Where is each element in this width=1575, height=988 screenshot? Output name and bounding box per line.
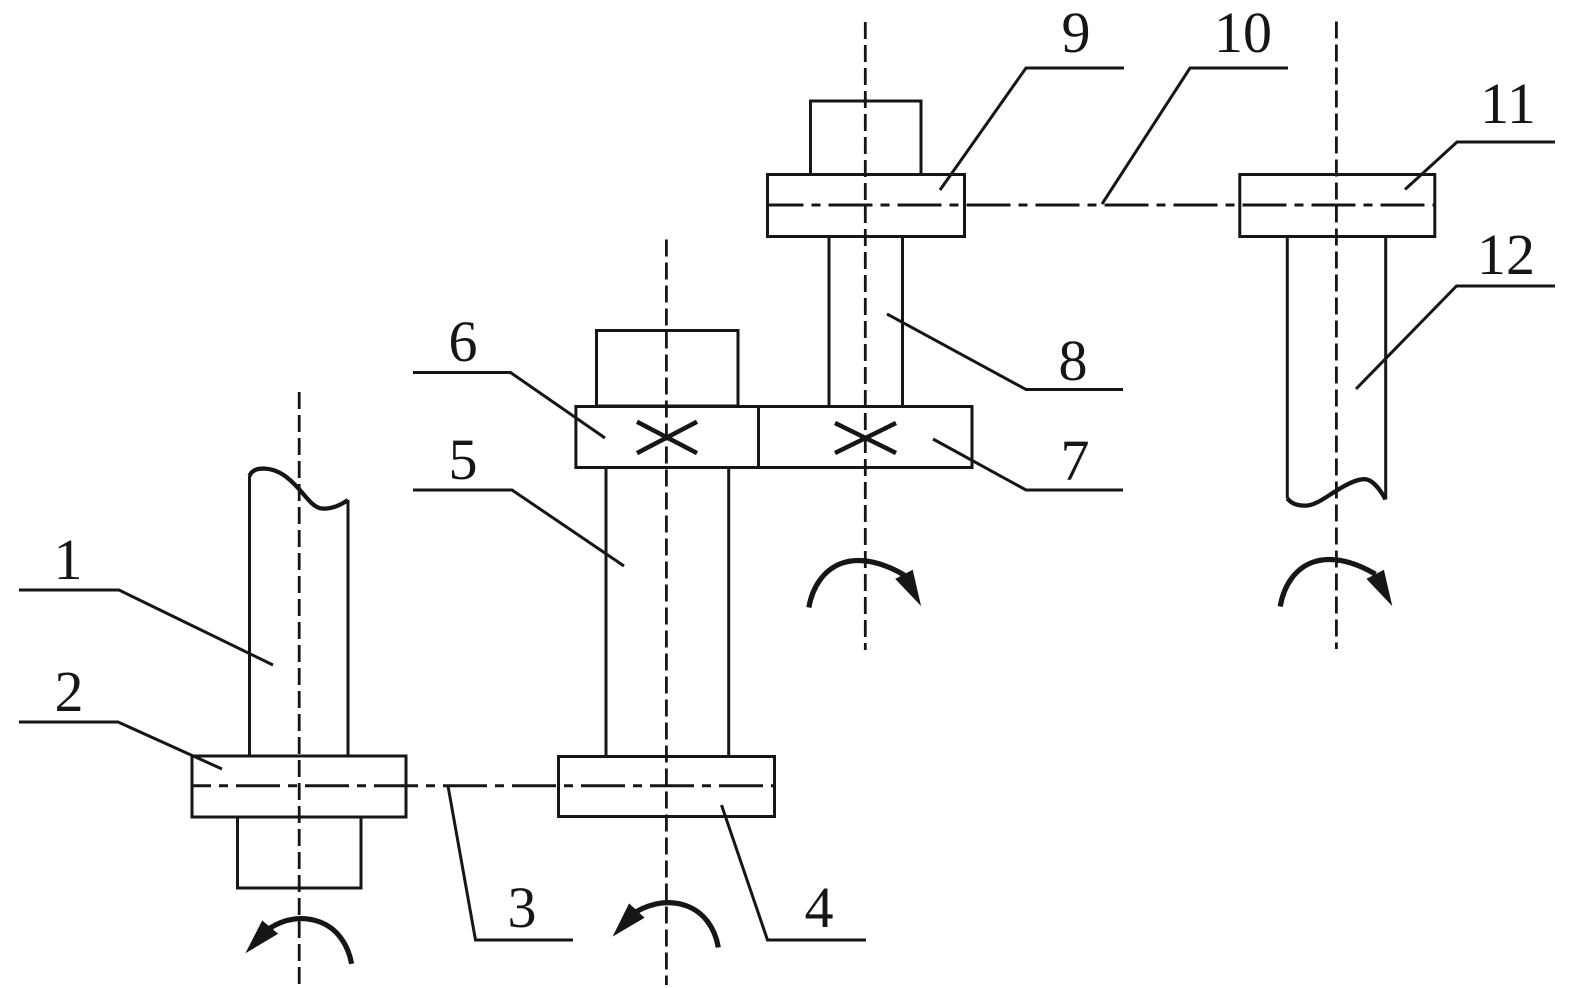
- bearing housing 7 (right box): [759, 407, 973, 468]
- svg-text:3: 3: [508, 875, 537, 940]
- leader line for label 4: [722, 805, 867, 940]
- axis centerline of shaft 1 (vertical dashed): [298, 392, 301, 985]
- block above flange 9: [811, 101, 922, 175]
- leader line for label 6: [413, 373, 605, 439]
- break squiggle at bottom of shaft 12: [1287, 479, 1385, 505]
- leader line for label 5: [413, 490, 624, 566]
- bearing housing 6 (left box): [576, 407, 759, 468]
- shaft 1 body (vertical shaft with break): [250, 476, 349, 756]
- svg-text:11: 11: [1480, 71, 1536, 136]
- svg-text:9: 9: [1062, 0, 1091, 65]
- leader line for label 9: [940, 68, 1124, 190]
- bearing cross X in housing 6: [637, 422, 697, 453]
- bearing block below gear 2: [238, 817, 362, 888]
- shaft 8 body: [829, 237, 903, 407]
- flange 11: [1240, 175, 1435, 237]
- svg-text:5: 5: [449, 427, 478, 492]
- svg-text:8: 8: [1059, 328, 1088, 393]
- upper horizontal axis (dash-dot through flanges 9 and 11): [768, 204, 1436, 207]
- leader line for label 3: [448, 786, 573, 940]
- svg-text:7: 7: [1061, 428, 1090, 493]
- rotation arrow at shaft 12 (clockwise): [1280, 559, 1392, 606]
- motor block above housing 6: [597, 331, 739, 407]
- rotation arrow at column 5 (counter-clockwise): [613, 903, 719, 948]
- shaft 12 body (with break at bottom): [1287, 237, 1385, 500]
- svg-text:6: 6: [449, 309, 478, 374]
- leader line for label 11: [1405, 142, 1555, 190]
- column sleeve 5: [606, 468, 729, 757]
- bearing cross X in housing 7: [835, 423, 896, 453]
- axis centerline of column 5 (vertical dashed): [665, 240, 668, 986]
- svg-text:1: 1: [54, 527, 83, 592]
- rotation arrow at shaft 1 (counter-clockwise): [245, 919, 351, 964]
- lower horizontal axis (dash-dot through gears 2 and 4): [192, 784, 775, 787]
- axis centerline of shaft 8 (vertical dashed): [864, 22, 867, 650]
- leader line for label 10: [1102, 68, 1288, 204]
- leader line for label 2: [19, 722, 222, 769]
- leader line for label 7: [933, 439, 1123, 490]
- break squiggle at top of shaft 1: [250, 469, 349, 509]
- svg-text:12: 12: [1477, 222, 1535, 287]
- leader line for label 8: [887, 314, 1123, 390]
- gear 2 (flange on shaft 1): [192, 756, 406, 817]
- svg-text:2: 2: [55, 659, 84, 724]
- leader line for label 12: [1356, 286, 1555, 389]
- svg-text:4: 4: [805, 875, 834, 940]
- gear 4 (flange at bottom of column 5): [559, 757, 775, 817]
- svg-text:10: 10: [1214, 0, 1272, 65]
- rotation arrow at shaft 8 (clockwise): [809, 560, 921, 607]
- axis centerline of shaft 12 (vertical dashed): [1335, 22, 1338, 650]
- leader line for label 1: [19, 590, 273, 665]
- flange 9: [768, 175, 965, 237]
